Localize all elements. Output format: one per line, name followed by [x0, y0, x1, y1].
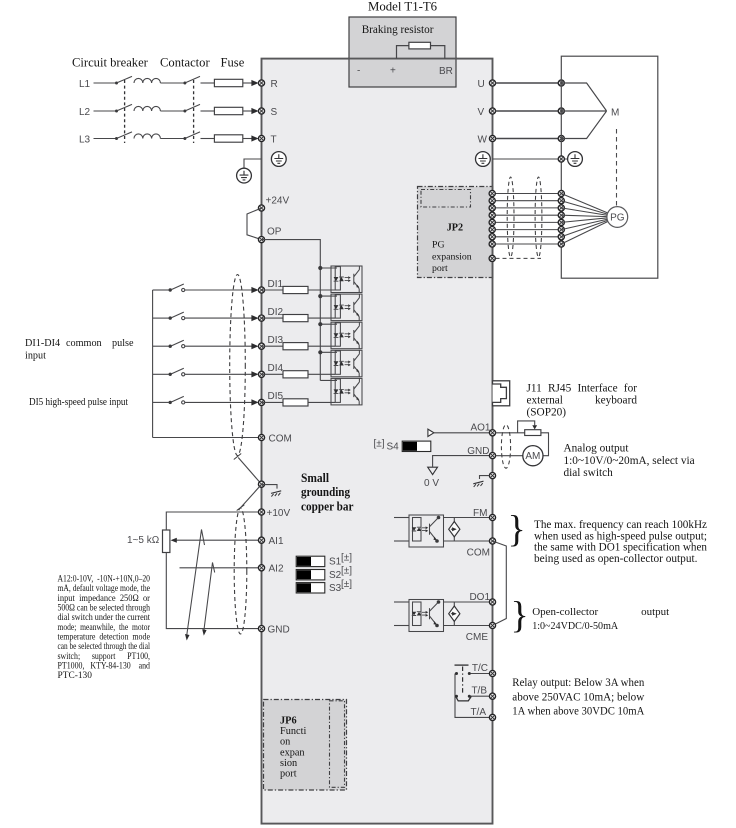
svg-text:DI1: DI1 [268, 279, 284, 290]
svg-text:FM: FM [473, 508, 487, 519]
wire W to motor [496, 138, 562, 140]
svg-text:Functi: Functi [280, 726, 306, 737]
svg-text:pulse: pulse [112, 338, 134, 349]
wire pot to AM meter [541, 433, 549, 456]
PG fan wire 6 [561, 219, 608, 230]
svg-text:M: M [611, 108, 619, 119]
svg-text:L1: L1 [79, 79, 91, 90]
wire contactor to fuse L2 [201, 110, 215, 112]
braking resistor element [409, 42, 431, 49]
wire terminal DI5 to resistor [262, 401, 284, 403]
relay common wire [455, 674, 490, 718]
wire FM [444, 517, 490, 519]
pot wiper loop [518, 421, 535, 433]
svg-text:Relay output: Below 3A when: Relay output: Below 3A when [512, 675, 644, 689]
PG cable node 3 [558, 205, 564, 211]
junction U motor bus [558, 80, 564, 86]
contactor pole L1 [183, 76, 200, 84]
optocoupler DI4 [331, 350, 362, 377]
resistor DI5 [283, 399, 308, 406]
svg-text:L2: L2 [79, 107, 91, 118]
svg-text:U: U [478, 79, 485, 90]
svg-text:The max. frequency can reach 1: The max. frequency can reach 100kHz [534, 519, 707, 531]
PG fan wire 2 [561, 201, 608, 215]
wire DI1 switch to terminal [185, 289, 254, 291]
0V symbol [428, 467, 438, 474]
svg-text:COM: COM [269, 434, 292, 445]
junction motor PE [558, 156, 564, 162]
svg-text:S: S [271, 107, 278, 118]
svg-text:port: port [280, 769, 297, 780]
twisted-pair marker 2 [204, 563, 215, 633]
svg-text:A12:0-10V, -10N-+10N,0–20: A12:0-10V, -10N-+10N,0–20 [58, 575, 151, 585]
svg-text:expan: expan [280, 747, 305, 758]
main unit right edge over JP2 [492, 186, 494, 278]
note open collector output [532, 606, 669, 632]
wire resistor DI1 to optocoupler [308, 289, 335, 291]
twisted-pair marker 1 [187, 530, 205, 638]
optocoupler DI2 [331, 294, 362, 321]
chassis ground symbol (left) [271, 491, 281, 497]
external earth symbol (motor side) [568, 152, 583, 167]
wire DO1 [444, 601, 490, 603]
note AI2 analog input description [58, 575, 151, 682]
PG cable node 5 [558, 219, 564, 225]
wire breaker to contactor L1 [160, 82, 184, 84]
svg-text:T/C: T/C [472, 663, 488, 674]
wire T/C [471, 673, 490, 675]
JP2 pin 2 wire [492, 200, 561, 202]
J11 RJ45 connector icon [493, 381, 510, 406]
PG fan wire 8 [561, 222, 608, 245]
svg-text:DO1: DO1 [469, 592, 490, 603]
svg-text:JP2: JP2 [447, 223, 463, 234]
wire to chassis symbol (right) [480, 476, 490, 479]
contactor linkage (dashed) [193, 80, 195, 143]
wire resistor DI5 to optocoupler [308, 401, 335, 403]
terminal DI5 [258, 399, 264, 405]
svg-text:500Ω can be selected through: 500Ω can be selected through [58, 604, 151, 614]
terminal shield ground (right) [489, 473, 495, 479]
note analog output [564, 443, 695, 479]
svg-text:T: T [271, 135, 277, 146]
svg-text:on: on [280, 737, 290, 748]
svg-text:1:0~10V/0~20mA, select via: 1:0~10V/0~20mA, select via [564, 455, 695, 467]
resistor DI1 [283, 286, 308, 293]
wire pot bottom to GND [166, 553, 258, 629]
svg-text:DI2: DI2 [268, 307, 284, 318]
JP2 inner connector rect [421, 190, 471, 208]
svg-text:GND: GND [268, 624, 290, 635]
svg-text:Braking resistor: Braking resistor [362, 24, 434, 36]
wire terminal DI3 to resistor [262, 345, 284, 347]
terminal DI1 [258, 287, 264, 293]
shield drain wire DI to grounding terminal [238, 458, 261, 485]
wire U to motor [496, 82, 562, 84]
terminal DI2 [258, 315, 264, 321]
svg-text:S3: S3 [329, 583, 342, 594]
wire fuse to terminal S [243, 110, 254, 112]
svg-text:}: } [511, 595, 529, 637]
shield tick DI [234, 454, 241, 460]
svg-text:Circuit breaker: Circuit breaker [72, 56, 149, 70]
wire opto common to optocoupler DI5 [320, 379, 337, 381]
svg-text:[±]: [±] [341, 552, 352, 563]
optocoupler DO1 [409, 600, 444, 632]
arrow into terminal T [251, 135, 258, 141]
wire resistor DI2 to optocoupler [308, 317, 335, 319]
resistor DI3 [283, 343, 308, 350]
JP2 pin 4 terminal [489, 212, 495, 218]
fuse L3 [214, 135, 242, 142]
terminal +24V [258, 205, 264, 211]
terminal DO1 [489, 599, 495, 605]
terminal V [489, 108, 495, 114]
wire fuse to terminal T [243, 138, 254, 140]
svg-text:mA, default voltage mode, the: mA, default voltage mode, the [58, 583, 151, 594]
shield drain wire AI to grounding terminal [241, 484, 262, 507]
wire terminal DI1 to resistor [262, 289, 284, 291]
dial switch S4 [402, 441, 431, 451]
PG encoder shaft (dashed) [616, 129, 618, 206]
motor enclosure box [561, 56, 658, 278]
wire V to motor [496, 110, 562, 112]
potentiometer body [163, 530, 170, 553]
svg-text:mode; meanwhile, the motor: mode; meanwhile, the motor [58, 623, 151, 633]
JP2 pin 6 wire [492, 229, 561, 231]
terminal T/C [489, 670, 495, 676]
wire pot top to +10V [166, 512, 258, 530]
contactor pole L3 [183, 132, 200, 140]
svg-text:Open-collector: Open-collector [532, 606, 598, 618]
PG cable node 1 [558, 190, 564, 196]
svg-text:DI4: DI4 [268, 363, 284, 374]
JP6 function expansion port box [264, 700, 347, 791]
svg-text:can be selected through the di: can be selected through the dial [58, 642, 151, 652]
svg-text:0 V: 0 V [424, 478, 439, 489]
svg-text:PT1000, KTY-84-130 and: PT1000, KTY-84-130 and [58, 662, 151, 672]
wire DI2 switch to terminal [185, 317, 254, 319]
pot wiper arrow to AI1 [172, 539, 259, 541]
DI4 switch contact [153, 368, 185, 376]
PG cable node 7 [558, 234, 564, 240]
svg-text:}: } [508, 509, 526, 551]
JP2 pin 7 wire [492, 236, 561, 238]
svg-text:R: R [271, 79, 278, 90]
braking resistor unit box [349, 17, 456, 87]
svg-text:grounding: grounding [301, 485, 351, 499]
braking resistor bracket wires [397, 46, 445, 59]
jumper wire +24V to OP [247, 208, 262, 240]
label Small grounding copper bar [301, 471, 354, 514]
relay actuator dash-dot [462, 667, 464, 695]
terminal T/B [489, 693, 495, 699]
AM meter [523, 446, 543, 466]
svg-text:(SOP20): (SOP20) [527, 407, 567, 419]
wire breaker to contactor L3 [160, 138, 184, 140]
svg-text:Contactor: Contactor [160, 56, 210, 70]
svg-text:L3: L3 [79, 134, 91, 145]
wire PE to motor earth [493, 158, 568, 160]
current source diamond DO1 [453, 602, 455, 626]
wire L1 to circuit breaker [94, 82, 117, 84]
DI1 switch contact [153, 284, 185, 292]
PG fan wire 5 [561, 218, 608, 223]
svg-text:Fuse: Fuse [221, 56, 245, 70]
svg-text:GND: GND [467, 446, 489, 457]
wire resistor DI4 to optocoupler [308, 373, 335, 375]
arrow into terminal DI2 [251, 315, 258, 321]
terminal T [258, 135, 264, 141]
PG cable node 6 [558, 227, 564, 233]
output pot body [525, 430, 541, 436]
svg-text:S2: S2 [329, 570, 342, 581]
buffer amp triangle [428, 429, 434, 436]
DI2 switch contact [153, 312, 185, 320]
wire contactor to fuse L3 [201, 138, 215, 140]
svg-text:BR: BR [439, 66, 453, 77]
svg-text:AO1: AO1 [470, 423, 490, 434]
wire bus to terminal COM [153, 437, 259, 439]
wire terminal DI4 to resistor [262, 373, 284, 375]
relay NC contact T/B [455, 695, 471, 701]
junction opto common DI4 [318, 350, 322, 354]
junction V motor bus [558, 108, 564, 114]
svg-text:Analog output: Analog output [564, 443, 630, 455]
svg-text:switch; support PT10: switch; support PT100, [58, 652, 151, 662]
note FM output [534, 519, 707, 565]
terminal FM [489, 514, 495, 520]
optocoupler DI1 [331, 266, 362, 293]
svg-text:port: port [432, 263, 448, 274]
terminal GND (right) [489, 453, 495, 459]
shielded cable (DI bundle) [230, 275, 246, 456]
DI3 switch contact [153, 340, 185, 348]
optocoupler FM [409, 515, 444, 547]
arrow into terminal R [251, 80, 258, 86]
arrow into terminal DI1 [251, 287, 258, 293]
wire DI5 switch to terminal [185, 401, 254, 403]
wire breaker to contactor L2 [160, 110, 184, 112]
svg-text:COM: COM [467, 548, 490, 559]
DO1 opto stub wires [394, 601, 409, 603]
terminal +10V [258, 509, 264, 515]
note relay output [512, 675, 644, 718]
svg-text:W: W [478, 135, 488, 146]
svg-text:Small: Small [301, 471, 330, 485]
JP2 pin 3 wire [492, 207, 561, 209]
wire fuse to terminal R [243, 82, 254, 84]
svg-text:AM: AM [525, 451, 540, 462]
fuse L2 [214, 107, 242, 114]
relay NO contact T/C [455, 665, 471, 675]
terminal COM (right) [489, 538, 495, 544]
svg-text:1A when above 30VDC 10mA: 1A when above 30VDC 10mA [512, 704, 644, 718]
resistor DI2 [283, 315, 308, 322]
wire opto common to optocoupler DI1 [320, 267, 337, 269]
JP2 pin 8 terminal [489, 241, 495, 247]
svg-text:dial switch under the current: dial switch under the current [58, 613, 151, 623]
svg-text:copper bar: copper bar [301, 499, 354, 513]
svg-text:PG: PG [610, 213, 625, 224]
svg-text:V: V [478, 107, 485, 118]
JP6 inner column [330, 701, 345, 788]
note DI1-DI4 common pulse input [25, 338, 134, 362]
contactor pole L2 [183, 104, 200, 112]
wire buffer to AO1 [434, 432, 490, 434]
wire CME [444, 625, 490, 627]
terminal GND (left) [258, 626, 264, 632]
circuit breaker pole L2 [115, 104, 160, 112]
chassis ground symbol (right) [473, 481, 483, 487]
terminal DI3 [258, 343, 264, 349]
wire COM to CME external link [493, 541, 507, 626]
wire CME-side FM [444, 540, 490, 542]
wire GND to 0V [433, 456, 490, 467]
current source diamond FM [453, 518, 455, 542]
svg-text:[±]: [±] [374, 439, 385, 450]
optocoupler DI3 [331, 322, 362, 349]
wire AI2 [180, 567, 259, 569]
wire opto common to optocoupler DI2 [320, 295, 337, 297]
PG fan wire 1 [561, 194, 608, 214]
dial switch S2 [296, 570, 325, 580]
arrow into terminal DI5 [251, 399, 258, 405]
svg-text:JP6: JP6 [280, 715, 297, 726]
wire opto common to optocoupler DI4 [320, 351, 337, 353]
shielded cable (AI bundle) [234, 508, 247, 634]
svg-text:CME: CME [466, 632, 489, 643]
svg-text:OP: OP [267, 227, 282, 238]
svg-text:1~5 kΩ: 1~5 kΩ [127, 535, 160, 546]
wire contactor to fuse L1 [201, 82, 215, 84]
JP2 pin 1 wire [492, 193, 561, 195]
svg-text:PG: PG [432, 240, 445, 251]
svg-text:[±]: [±] [341, 566, 352, 577]
PG fan wire 4 [561, 215, 608, 216]
fuse L1 [214, 79, 242, 86]
svg-text:input: input [25, 351, 46, 362]
svg-text:DI5: DI5 [268, 391, 284, 402]
JP2 pin 8 wire [492, 243, 561, 245]
external earth symbol (input side) [237, 168, 252, 183]
svg-text:-: - [357, 66, 360, 77]
terminal AI1 [258, 537, 264, 543]
wire grounding terminal to chassis symbol [262, 485, 278, 489]
svg-text:S4: S4 [387, 442, 400, 453]
wire GND to AM meter [496, 455, 523, 457]
arrow into terminal S [251, 108, 258, 114]
junction opto common DI3 [318, 322, 322, 326]
wire AO1 to pot [496, 432, 525, 434]
analog output shielded cable [501, 425, 510, 468]
svg-text:+24V: +24V [266, 196, 290, 207]
svg-text:keyboard: keyboard [595, 395, 637, 407]
junction opto common DI1 [318, 266, 322, 270]
optocoupler DI5 [331, 378, 362, 405]
terminal DI4 [258, 371, 264, 377]
JP2 pin 3 terminal [489, 205, 495, 211]
DI common bus (left) [152, 290, 154, 438]
svg-text:above 250VAC 10mA; below: above 250VAC 10mA; below [512, 689, 644, 703]
wire L2 to circuit breaker [94, 110, 117, 112]
svg-text:sion: sion [280, 758, 297, 769]
wire OP to opto common bus [262, 240, 321, 381]
svg-text:+: + [390, 66, 396, 77]
FM opto stub wires [394, 517, 409, 519]
svg-text:Model T1-T6: Model T1-T6 [368, 0, 438, 14]
svg-text:T/B: T/B [471, 686, 487, 697]
junction opto common DI2 [318, 294, 322, 298]
wire DI4 switch to terminal [185, 373, 254, 375]
circuit breaker linkage (dashed) [124, 80, 126, 143]
svg-text:the same with DO1 specificatio: the same with DO1 specification when [534, 542, 707, 554]
JP2 pin 5 wire [492, 221, 561, 223]
svg-text:external: external [527, 395, 563, 407]
svg-text:temperature detection mode: temperature detection mode [58, 633, 151, 643]
svg-text:dial switch: dial switch [564, 467, 614, 479]
terminal S [258, 108, 264, 114]
terminal OP [258, 237, 264, 243]
svg-text:T/A: T/A [470, 707, 486, 718]
inverter main unit body [262, 59, 493, 824]
svg-text:AI1: AI1 [269, 536, 284, 547]
PG cable node 2 [558, 198, 564, 204]
JP2 PG expansion port box [418, 187, 493, 278]
PG cable shield ellipse 1 [507, 177, 514, 257]
JP6 labels [280, 715, 306, 779]
svg-text:DI5 high-speed pulse input: DI5 high-speed pulse input [29, 397, 128, 408]
dial switch S3 [296, 583, 325, 593]
svg-text:[±]: [±] [341, 579, 352, 590]
JP2 pin 7 terminal [489, 234, 495, 240]
terminal AI2 [258, 565, 264, 571]
svg-text:DI1-DI4: DI1-DI4 [25, 338, 60, 349]
JP2 port description [432, 240, 472, 274]
wire T/B [471, 695, 490, 697]
PG encoder circle [607, 207, 628, 228]
terminal W [489, 135, 495, 141]
terminal shield ground (left) [258, 481, 264, 487]
svg-text:being used as open-collector o: being used as open-collector output. [534, 553, 698, 565]
terminal AO1 [489, 430, 495, 436]
circuit breaker pole L3 [115, 132, 160, 140]
note J11 RJ45 interface [527, 382, 638, 418]
internal PE symbol (right) [476, 152, 491, 167]
PG cable shield ellipse 2 [535, 177, 542, 257]
JP2 pin 1 terminal [489, 190, 495, 196]
svg-text:expansion: expansion [432, 251, 472, 262]
JP2 pin 5 terminal [489, 219, 495, 225]
wire opto common to optocoupler DI3 [320, 323, 337, 325]
arrow into terminal DI3 [251, 343, 258, 349]
JP2 pin 6 terminal [489, 227, 495, 233]
svg-text:1:0~24VDC/0-50mA: 1:0~24VDC/0-50mA [532, 620, 618, 632]
wire resistor DI3 to optocoupler [308, 345, 335, 347]
svg-text:input impedance 250Ω or: input impedance 250Ω or [58, 594, 151, 604]
wire PE to external earth [244, 159, 262, 168]
wire terminal DI2 to resistor [262, 317, 284, 319]
svg-text:output: output [641, 606, 669, 618]
PG cable node 4 [558, 212, 564, 218]
svg-text:DI3: DI3 [268, 335, 284, 346]
main unit top edge over braking box [348, 58, 457, 60]
JP2 pin 2 terminal [489, 198, 495, 204]
svg-text:J11 RJ45 Interface for: J11 RJ45 Interface for [527, 382, 638, 394]
svg-text:when used as high-speed pulse: when used as high-speed pulse output; [534, 530, 707, 542]
junction W motor bus [558, 135, 564, 141]
resistor DI4 [283, 371, 308, 378]
